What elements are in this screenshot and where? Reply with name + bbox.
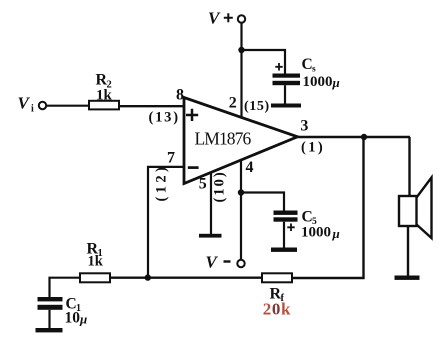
- svg-text:(10): (10): [212, 170, 228, 202]
- svg-text:(15): (15): [244, 99, 270, 114]
- resistor R1: [80, 273, 110, 282]
- capacitor C1: [38, 297, 63, 301]
- speaker LS1: [399, 196, 417, 226]
- plus mark (C5): [287, 224, 294, 232]
- wire pin 5: [210, 172, 212, 234]
- svg-text:s: s: [312, 65, 316, 75]
- svg-text:5: 5: [199, 176, 207, 193]
- ground (speaker): [395, 276, 420, 280]
- capacitor Cs: [273, 74, 301, 78]
- svg-text:μ: μ: [332, 75, 340, 90]
- node output junction: [361, 134, 367, 140]
- ground (C5): [271, 248, 297, 252]
- wire pin 4 to V- terminal: [240, 160, 242, 260]
- svg-text:i: i: [31, 104, 34, 115]
- svg-text:3: 3: [300, 118, 308, 135]
- wire speaker to ground: [407, 226, 409, 276]
- wire Rf to R1: [110, 277, 263, 279]
- supply terminal V+: [238, 15, 245, 22]
- svg-text:1k: 1k: [88, 254, 104, 270]
- wire R1 to C1: [50, 278, 81, 298]
- svg-text:1k: 1k: [96, 88, 113, 104]
- wire pin 7: [148, 167, 184, 278]
- wire junction to C5: [241, 193, 284, 212]
- svg-text:1000: 1000: [301, 225, 331, 241]
- wire output: [298, 136, 411, 138]
- resistor Rf: [262, 273, 292, 282]
- svg-text:V: V: [18, 94, 31, 113]
- wire input to R2: [46, 105, 89, 107]
- op-amp U1 LM1876 triangle: [184, 98, 298, 184]
- svg-text:V: V: [208, 9, 221, 28]
- svg-text:(1): (1): [301, 139, 325, 155]
- wire output to speaker: [408, 137, 410, 196]
- ground (C1): [36, 328, 63, 332]
- svg-text:(12): (12): [154, 164, 170, 202]
- wire pin 2 from V+: [240, 23, 242, 118]
- svg-text:μ: μ: [332, 226, 340, 241]
- wire C5 to ground: [283, 222, 285, 248]
- op-amp plus input symbol: [186, 109, 198, 121]
- resistor R2: [89, 101, 119, 110]
- plus mark (Cs): [275, 63, 282, 71]
- node feedback junction: [145, 274, 151, 280]
- capacitor C5: [274, 211, 298, 215]
- node pin4 junction: [238, 189, 244, 195]
- node V+ junction: [238, 47, 244, 53]
- wire junction to Cs: [242, 50, 286, 74]
- op-amp minus input symbol: [188, 166, 199, 169]
- svg-text:10: 10: [65, 310, 81, 327]
- svg-text:1000: 1000: [303, 74, 333, 90]
- wire C1 to ground: [48, 310, 50, 329]
- svg-text:LM1876: LM1876: [195, 128, 252, 148]
- svg-text:V: V: [206, 253, 219, 272]
- svg-text:2: 2: [229, 95, 237, 112]
- svg-text:4: 4: [246, 159, 254, 176]
- ground (Cs): [271, 104, 301, 108]
- wire R2 to pin 8: [119, 105, 184, 107]
- ground (pin 5): [199, 234, 222, 238]
- supply terminal V-: [237, 260, 244, 267]
- wire Cs to ground: [284, 85, 286, 104]
- wire feedback vertical: [292, 137, 364, 278]
- svg-text:20k: 20k: [263, 299, 291, 318]
- svg-text:μ: μ: [79, 312, 87, 327]
- input terminal Vi: [39, 102, 46, 109]
- svg-text:(13): (13): [149, 110, 180, 126]
